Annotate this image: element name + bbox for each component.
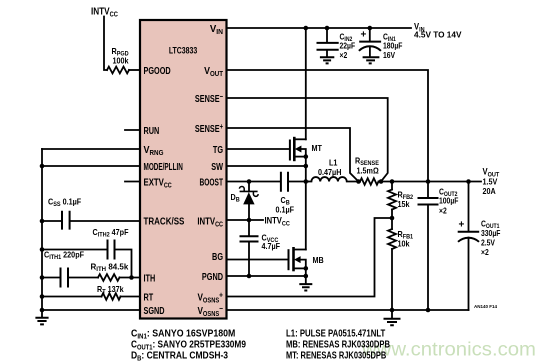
svg-text:0.47µH: 0.47µH [318,167,342,177]
junction VIN/CIN2 [325,26,330,31]
svg-text:PGOOD: PGOOD [144,65,171,76]
svg-text:+: + [459,220,465,231]
svg-text:L1: L1 [329,158,338,168]
wire SENSE+ kelvin [227,128,359,182]
wire SGND [42,309,140,311]
junction VIN/MT [304,26,309,31]
svg-text:MODE/PLLIN: MODE/PLLIN [144,160,183,172]
wire MB drain to SW node [305,182,307,250]
svg-text:RT 137k: RT 137k [97,284,124,295]
ground left rail [35,308,48,325]
svg-text:10k: 10k [398,239,411,249]
transistor MT [290,137,322,161]
junction output/COUT2 [426,179,431,184]
svg-text:100µF: 100µF [439,196,459,206]
wire ITH left [42,277,60,279]
svg-text:MB: MB [313,256,325,266]
wire RPGD to PGOOD pin [129,69,140,71]
svg-text:TG: TG [213,144,223,155]
resistor RFB2 15k [388,182,414,210]
svg-text:BOOST: BOOST [200,176,224,188]
svg-text:×2: ×2 [481,247,489,257]
resistor RSENSE 1.5mOhm [355,156,381,185]
svg-text:L1: PULSE PA0515.471NLT: L1: PULSE PA0515.471NLT [286,328,386,339]
svg-text:SENSE+: SENSE+ [195,123,223,134]
wire PGND [227,275,306,277]
svg-text:+: + [361,30,367,41]
wire VOUT to output [227,70,429,182]
svg-text:4.5V TO 14V: 4.5V TO 14V [414,29,462,39]
IC U1 LTC3833 body [140,20,227,319]
wire MB source to PGND [305,268,307,276]
wire SENSE- kelvin [227,98,388,182]
svg-text:AN140 F14: AN140 F14 [474,304,498,309]
node VOUT output line [381,181,481,183]
wire BG [227,259,289,261]
capacitor CIN1 180uF polarized [359,28,403,60]
svg-text:22µF: 22µF [340,41,356,51]
svg-text:16V: 16V [383,51,395,61]
wire RFB1 to return [391,249,393,310]
junction TRACK rail [40,219,45,224]
svg-text:ITH: ITH [144,272,156,283]
ground at RFB1 [384,310,401,325]
junction VOSNS-/COUT2 [426,308,431,313]
wire CITH2 branch left [42,249,107,251]
svg-text:SGND: SGND [144,305,165,316]
svg-text:SENSE−: SENSE− [195,93,223,104]
net label VIN 4.5V TO 14V [414,21,462,39]
wire VOSNS+ feedback [227,218,393,297]
junction ITH node [129,275,134,280]
svg-text:180µF: 180µF [383,41,403,51]
svg-text:BG: BG [212,251,223,262]
svg-text:LTC3833: LTC3833 [169,44,198,55]
wire VOSNS- return [227,309,469,311]
junction ITH rail [40,275,45,280]
wire CITH2 to ITH node [116,250,132,278]
wire CSS to TRACK pin [71,220,140,222]
svg-text:1.5mΩ: 1.5mΩ [357,166,379,176]
svg-text:0.1µF: 0.1µF [276,205,295,215]
junction PGND/CVCC [247,274,252,279]
wire SW node vertical [305,157,307,182]
wire INTVCC pin [227,219,264,221]
resistor RPGD 100k [107,46,129,73]
svg-text:RITH 84.5k: RITH 84.5k [91,262,129,273]
junction SW/L1/BOOST [304,179,309,184]
capacitor CVCC 4.7uF [240,220,281,276]
svg-text:RUN: RUN [144,125,160,136]
svg-text:DB: CENTRAL CMDSH-3: DB: CENTRAL CMDSH-3 [131,350,228,363]
junction VIN/CIN1 [368,26,373,31]
junction SW [304,164,309,169]
wire left rail [41,149,43,310]
capacitor CITH2 47pF [93,228,129,260]
ground CIN1 [363,57,380,63]
svg-text:MT: MT [312,143,323,153]
wire VIN rail [227,27,412,29]
wire RITH to ITH pin [120,277,141,279]
wire MODE/PLLIN [42,165,140,167]
capacitor CITH1 220pF [44,250,84,288]
junction FB node [390,216,395,221]
wire SW [227,165,306,167]
resistor RT 137k [97,284,124,299]
svg-text:2.5V: 2.5V [481,238,495,248]
svg-text:MB: RENESAS RJK0330DPB: MB: RENESAS RJK0330DPB [286,339,391,350]
svg-text:100k: 100k [113,56,130,66]
svg-text:PGND: PGND [202,271,223,282]
capacitor COUT2 100uF x2 [418,182,459,311]
svg-text:RT: RT [144,291,154,302]
svg-text:1.5V: 1.5V [483,177,499,187]
junction PGND/MB [304,274,309,279]
junction output/COUT1 [466,179,471,184]
transistor MB [289,247,325,271]
inductor L1 0.47uH [306,158,359,182]
junction BOOST/DB [247,179,252,184]
capacitor CSS 0.1uF [48,197,81,230]
junction L1/SENSE+ [356,179,361,184]
junction RSENSE/SENSE- [379,179,384,184]
wire MT drain to VIN [305,28,307,139]
resistor RITH 84.5k [91,262,129,281]
svg-text:CSS 0.1µF: CSS 0.1µF [48,197,81,208]
wire RT to pin [121,296,141,298]
svg-text:SW: SW [211,161,223,172]
capacitor CIN2 22uF x2 [317,28,356,60]
junction VOSNS-/RFB1 [390,308,395,313]
svg-text:MT: RENESAS RJK0305DPB: MT: RENESAS RJK0305DPB [286,349,386,360]
ground CIN2 [320,57,334,63]
svg-text:20A: 20A [483,186,497,196]
svg-text:330µF: 330µF [481,228,501,238]
wire TG [227,148,290,150]
junction MODE rail [40,164,45,169]
svg-text:TRACK/SS: TRACK/SS [144,215,185,226]
wire RT left [42,296,102,298]
junction RT rail [40,294,45,299]
svg-text:×2: ×2 [439,206,447,216]
wire RFB2 to node [391,210,393,230]
resistor RFB1 10k [388,229,414,249]
svg-text:15k: 15k [398,199,411,209]
wire TRACK/SS left [42,220,61,222]
net label VOUT 1.5V 20A [483,166,500,196]
capacitor COUT1 330uF polarized [458,182,501,311]
svg-text:4.7µF: 4.7µF [262,241,281,251]
wire INTVCC down to RPGD [104,17,107,71]
wire EXTVCC stub [125,181,140,183]
wire RUN stub [125,129,140,131]
ground below MB [299,276,312,291]
wire VRNG [42,148,140,150]
junction CITH2 rail [40,247,45,252]
junction INTVCC [247,218,252,223]
diode DB schottky [231,182,259,221]
capacitor CB 0.1uF [276,172,306,215]
junction output/RFB2 [390,179,395,184]
wire BOOST [227,181,280,183]
wire CITH1 to RITH [69,277,98,279]
svg-text:×2: ×2 [340,51,348,61]
